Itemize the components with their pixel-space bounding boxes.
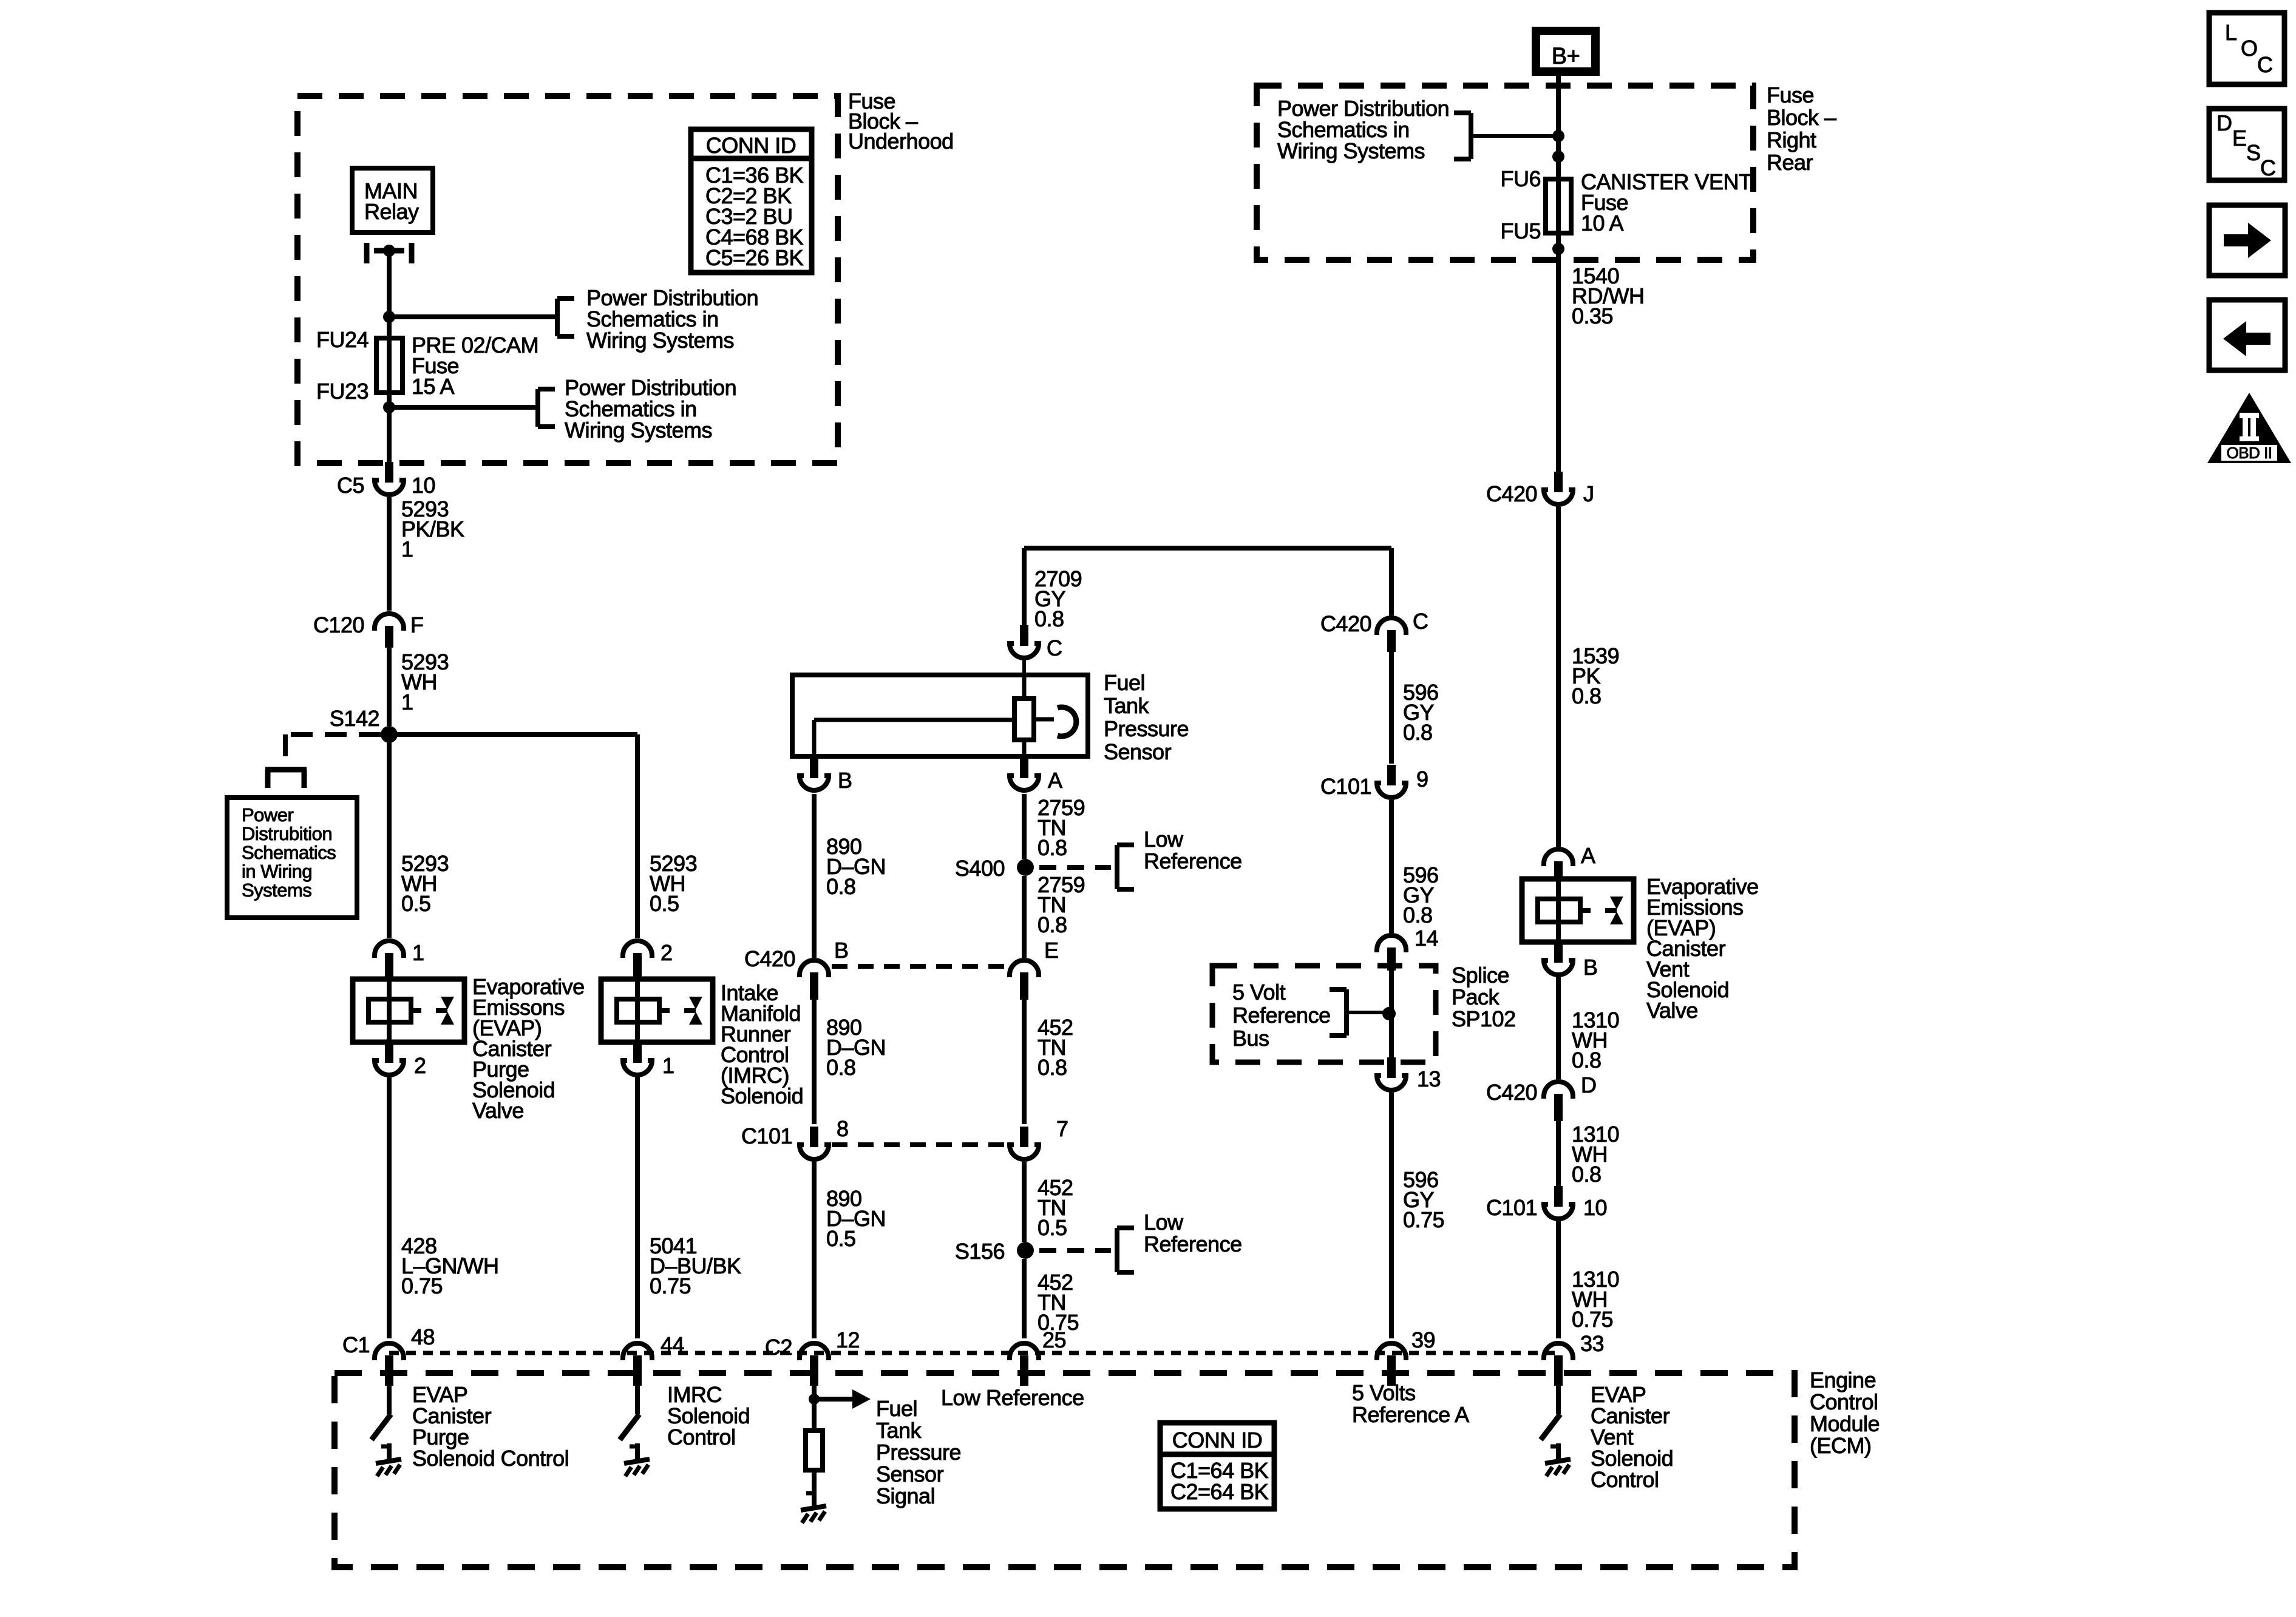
svg-text:B: B (834, 938, 849, 963)
svg-text:Control: Control (1591, 1467, 1659, 1492)
wire 2759 TN lower (1022, 876, 1027, 958)
svg-text:S142: S142 (330, 706, 379, 731)
connector C420 pin D (1544, 1082, 1573, 1121)
label wire 596 GY 0.8 lower (1403, 863, 1439, 927)
svg-text:Engine: Engine (1810, 1368, 1876, 1392)
label low reference upper (1144, 827, 1242, 873)
ECM FTPS signal ground (801, 1490, 826, 1523)
connector FTPS pin B (800, 758, 829, 790)
svg-text:J: J (1583, 481, 1594, 506)
EVAP canister purge solenoid valve (353, 979, 464, 1042)
svg-text:OBD II: OBD II (2226, 444, 2272, 462)
node junction dot FU24 branch (383, 311, 395, 323)
5 volt reference bus dashed box (1212, 966, 1436, 1062)
CONN ID table ECM (1160, 1423, 1274, 1509)
ECM driver switch EVAP vent (1541, 1378, 1571, 1476)
label C420 at C (1320, 611, 1371, 636)
icon OBD II triangle (2207, 393, 2291, 463)
svg-text:C: C (1047, 636, 1062, 660)
svg-text:C: C (1413, 609, 1428, 634)
bracket power distribution right (1454, 113, 1471, 159)
ECM driver switch EVAP purge (372, 1378, 401, 1476)
label C101 at 10 (1486, 1195, 1537, 1220)
svg-text:13: 13 (1417, 1066, 1441, 1091)
svg-text:2: 2 (661, 940, 673, 965)
svg-text:Low: Low (1144, 827, 1184, 852)
svg-text:in Wiring: in Wiring (242, 861, 312, 882)
label splice pack SP102 (1452, 963, 1516, 1031)
svg-text:0.75: 0.75 (1403, 1207, 1444, 1232)
label wire 452 TN 0.8 (1038, 1015, 1073, 1080)
svg-text:12: 12 (836, 1327, 860, 1352)
svg-text:S156: S156 (955, 1239, 1005, 1264)
label pin 13 (1417, 1066, 1441, 1091)
svg-text:8: 8 (837, 1116, 849, 1141)
label IMRC pin 2 (661, 940, 673, 965)
relay K MAIN Relay box (352, 168, 433, 232)
label pin D (1581, 1073, 1597, 1097)
label power distribution upper (586, 285, 758, 353)
svg-text:0.8: 0.8 (826, 874, 856, 899)
label pin 7 (1056, 1116, 1068, 1141)
svg-text:Splice: Splice (1452, 963, 1509, 988)
wire bracket to B+ wire (1471, 134, 1556, 138)
label FU24 (316, 327, 369, 352)
label EVAP canister purge solenoid control (412, 1382, 569, 1471)
svg-text:C101: C101 (1320, 774, 1371, 799)
label power distrubition schematics in wiring systems (242, 804, 336, 901)
label pin C (1413, 609, 1428, 634)
svg-text:Control: Control (667, 1425, 736, 1449)
label wire 890 D-GN 0.5 (826, 1186, 886, 1251)
connector IMRC pin 2 (623, 941, 652, 980)
svg-text:Sensor: Sensor (876, 1462, 944, 1486)
svg-text:Pressure: Pressure (876, 1440, 961, 1465)
wire 596 GY 0.75 (1389, 1093, 1394, 1338)
connector FTPS pin C (1010, 625, 1039, 658)
dashed wire S142 to power distrubition (285, 734, 381, 766)
connector C420 pin C (1377, 618, 1406, 652)
label pin 12 (836, 1327, 860, 1352)
wire 890 D-GN 0.5 (812, 1162, 817, 1338)
label wire 2759 TN 0.8 lower (1038, 872, 1085, 937)
svg-text:B+: B+ (1552, 44, 1580, 69)
svg-text:D: D (2216, 110, 2232, 135)
label low reference lower (1144, 1210, 1242, 1256)
svg-text:0.8: 0.8 (1034, 606, 1064, 631)
wire FU23 to C5 (387, 393, 392, 470)
svg-text:0.5: 0.5 (401, 891, 431, 916)
label power distribution lower (565, 375, 736, 442)
wire 2759 TN upper (1022, 794, 1027, 859)
svg-text:Pack: Pack (1452, 985, 1500, 1009)
connector IMRC pin 1 (623, 1040, 652, 1075)
label C120 (313, 612, 364, 637)
svg-text:S: S (2246, 140, 2261, 165)
svg-text:10: 10 (412, 473, 435, 498)
svg-text:C101: C101 (1486, 1195, 1537, 1220)
connector purge valve pin 1 (375, 941, 404, 980)
svg-text:FU6: FU6 (1500, 166, 1541, 191)
svg-text:33: 33 (1580, 1331, 1604, 1356)
IMRC solenoid valve (601, 979, 713, 1042)
label pin J (1583, 481, 1594, 506)
svg-text:Sensor: Sensor (1104, 739, 1172, 764)
label wire 5293 WH 0.5 left (401, 851, 449, 916)
node junction dot FU23 branch (383, 401, 395, 413)
svg-text:1: 1 (401, 690, 413, 714)
svg-text:0.5: 0.5 (1038, 1215, 1067, 1240)
label S156 (955, 1239, 1005, 1264)
svg-text:C420: C420 (744, 946, 795, 971)
svg-text:0.5: 0.5 (826, 1226, 856, 1251)
label pin 33 (1580, 1331, 1604, 1356)
label pin 48 (411, 1324, 435, 1349)
svg-text:B: B (838, 768, 852, 793)
svg-text:A: A (1048, 768, 1062, 793)
svg-text:0.8: 0.8 (1038, 1055, 1067, 1080)
wire branch to power distribution (lower) (389, 405, 538, 410)
FTPS internal crescent (1034, 707, 1076, 736)
label wire 2759 TN 0.8 upper (1038, 795, 1085, 860)
icon DESC box (2209, 109, 2284, 180)
label wire 1540 RD/WH 0.35 (1572, 263, 1644, 328)
svg-text:0.5: 0.5 (650, 891, 679, 916)
MAIN relay socket bracket (367, 243, 412, 263)
wire 596 GY 0.8 lower (1389, 800, 1394, 933)
label wire 890 D-GN 0.8 mid (826, 1015, 886, 1080)
label wire 596 GY 0.8 upper (1403, 680, 1439, 745)
icon left arrow box (2209, 300, 2285, 370)
svg-text:10 A: 10 A (1581, 211, 1624, 236)
wire 452 TN 0.75 (1022, 1259, 1027, 1338)
connector C101 pin 9 (1377, 765, 1406, 798)
wire 452 TN 0.8 (1022, 998, 1027, 1124)
svg-text:Valve: Valve (472, 1098, 524, 1123)
wire 890 D-GN 0.8 upper (812, 794, 817, 958)
label evaporative emissions purge valve (472, 974, 585, 1123)
connector C101 pin 7 (1010, 1127, 1039, 1159)
label fuse block right rear (1767, 83, 1836, 175)
label fuse block underhood (848, 89, 954, 154)
label vent pin B (1583, 955, 1598, 980)
svg-text:25: 25 (1042, 1327, 1066, 1352)
svg-text:Reference A: Reference A (1352, 1402, 1469, 1427)
label C2 (765, 1335, 792, 1360)
connector C120 pin F (375, 614, 404, 648)
wire branch to power distribution (upper) (389, 314, 557, 319)
connector C2 pin 12 (800, 1343, 829, 1386)
svg-text:Block –: Block – (1767, 105, 1836, 130)
bracket 5 volt reference (1330, 989, 1347, 1036)
svg-text:5 Volts: 5 Volts (1352, 1380, 1416, 1405)
svg-text:Systems: Systems (242, 880, 311, 901)
svg-text:1: 1 (401, 537, 413, 561)
EVAP canister vent solenoid valve (1522, 879, 1634, 942)
svg-text:CONN ID: CONN ID (706, 133, 796, 158)
label IMRC solenoid control (667, 1382, 750, 1449)
svg-text:F: F (410, 612, 424, 637)
wire MAIN relay to fuse FU24 (387, 251, 392, 340)
svg-text:1: 1 (412, 940, 424, 965)
ECM driver switch IMRC (620, 1378, 650, 1476)
svg-text:C2: C2 (765, 1335, 792, 1360)
fuse block right rear dashed box (1257, 86, 1753, 260)
connector vent valve pin A (1544, 849, 1573, 881)
svg-text:Distrubition: Distrubition (242, 823, 332, 844)
label EVAP canister vent solenoid control (1591, 1382, 1673, 1492)
label IMRC pin 1 (662, 1053, 674, 1078)
svg-text:Wiring Systems: Wiring Systems (565, 418, 712, 442)
label wire 5293 WH 0.5 right (650, 851, 697, 916)
label FU23 (316, 379, 369, 404)
label pin 8 (837, 1116, 849, 1141)
svg-text:48: 48 (411, 1324, 435, 1349)
svg-text:C: C (2257, 52, 2273, 77)
label wire 5041 D-BU/BK 0.75 (650, 1233, 741, 1298)
connector C420 pin E (1010, 960, 1039, 1000)
ECM FTPS signal resistor (806, 1399, 823, 1498)
svg-text:CONN ID: CONN ID (1172, 1428, 1263, 1453)
connector C2 pin 33 (1544, 1343, 1573, 1386)
label canister vent fuse 10 A (1581, 169, 1752, 236)
label wire 890 D-GN 0.8 upper (826, 834, 886, 899)
label C101 at 8 (741, 1124, 792, 1148)
wire through SP102 box (1389, 966, 1394, 1059)
label wire 1310 WH 0.8 upper (1572, 1008, 1619, 1073)
label FTPS pin B (838, 768, 852, 793)
svg-text:Bus: Bus (1232, 1026, 1269, 1051)
svg-text:Low: Low (1144, 1210, 1184, 1235)
svg-text:Reference: Reference (1232, 1003, 1331, 1028)
label FU5 (1500, 219, 1541, 243)
svg-text:A: A (1581, 843, 1595, 868)
label S400 (955, 856, 1005, 881)
svg-text:Underhood: Underhood (848, 129, 954, 154)
svg-text:0.75: 0.75 (650, 1273, 691, 1298)
svg-text:Solenoid: Solenoid (721, 1083, 803, 1108)
label purge pin 2 (414, 1053, 426, 1078)
label pin E (1044, 938, 1059, 963)
wire 452 TN 0.5 (1022, 1162, 1027, 1242)
svg-text:0.75: 0.75 (1572, 1307, 1613, 1332)
bracket power distribution lower (538, 389, 555, 427)
label pin 14 (1415, 926, 1438, 951)
svg-text:0.8: 0.8 (1038, 912, 1067, 937)
svg-text:C420: C420 (1320, 611, 1371, 636)
svg-text:C420: C420 (1486, 1080, 1537, 1105)
wire top run pin C to C420 C (1024, 548, 1391, 625)
connector C101 pin 8 (800, 1127, 829, 1159)
connector C1 pin 48 (375, 1343, 404, 1386)
svg-text:S400: S400 (955, 856, 1005, 881)
FTPS internal element (1014, 675, 1034, 756)
off-page fork symbol (265, 770, 307, 788)
connector SP102 pin 14 (1377, 935, 1406, 971)
label S142 (330, 706, 379, 731)
label wire 452 TN 0.5 (1038, 1175, 1073, 1240)
svg-text:0.8: 0.8 (1403, 903, 1433, 927)
label engine control module ECM (1810, 1368, 1880, 1458)
svg-text:14: 14 (1415, 926, 1438, 951)
svg-text:Pressure: Pressure (1104, 716, 1189, 741)
wire 1310 WH 0.8 lower (1556, 1120, 1561, 1186)
battery B+ box (1536, 31, 1595, 72)
icon LOC box (2209, 13, 2284, 84)
svg-text:Signal: Signal (876, 1483, 935, 1508)
label 5 volts reference A (1352, 1380, 1469, 1427)
bracket power distribution upper (557, 299, 574, 336)
svg-text:C1: C1 (342, 1332, 370, 1357)
connector C101 pin 10 (1544, 1186, 1573, 1219)
svg-text:C5: C5 (337, 473, 364, 498)
svg-text:Relay: Relay (364, 199, 419, 224)
engine control module dashed box (335, 1373, 1795, 1567)
svg-text:B: B (1583, 955, 1598, 980)
wire 428 L-GN/WH (387, 1077, 392, 1338)
label wire 2709 GY 0.8 (1034, 566, 1082, 631)
ECM connector face dotted line (389, 1351, 1558, 1355)
fuse FU24/FU23 PRE O2/CAM 15A (376, 338, 402, 393)
svg-text:Fuse: Fuse (1767, 83, 1814, 107)
label C420 at J (1486, 481, 1537, 506)
label wire 452 TN 0.75 (1038, 1270, 1079, 1335)
label fuel tank pressure sensor (1104, 670, 1189, 764)
label pin 39 (1411, 1327, 1435, 1352)
wire 5293 WH 1 (387, 645, 392, 726)
FTPS internal wiper line (814, 720, 1014, 756)
label power distribution right (1277, 96, 1449, 163)
wire 1539 PK 0.8 (1556, 507, 1561, 847)
fuse FU6/FU5 CANISTER VENT 10A (1546, 179, 1571, 233)
dashed link S156 to low reference (1039, 1248, 1111, 1253)
label intake manifold runner control (721, 980, 803, 1108)
svg-text:0.8: 0.8 (826, 1055, 856, 1080)
svg-text:Wiring Systems: Wiring Systems (1277, 138, 1425, 163)
svg-text:5 Volt: 5 Volt (1232, 980, 1286, 1005)
junction dot FU5 (1552, 243, 1564, 255)
svg-text:Low Reference: Low Reference (941, 1385, 1084, 1410)
wire S142 to IMRC branch (389, 734, 637, 938)
svg-text:C420: C420 (1486, 481, 1537, 506)
svg-text:0.8: 0.8 (1572, 1048, 1601, 1073)
svg-text:C: C (2260, 155, 2276, 180)
svg-text:D: D (1581, 1073, 1597, 1097)
wire B+ down (1556, 72, 1561, 473)
svg-text:Valve: Valve (1646, 998, 1698, 1023)
connector C420 pin B (800, 960, 829, 1000)
svg-text:9: 9 (1416, 767, 1428, 792)
label evaporative emissions vent valve (1646, 874, 1759, 1023)
svg-text:10: 10 (1583, 1195, 1607, 1220)
junction dot under MAIN relay (383, 245, 395, 257)
label PRE 02/CAM Fuse 15 A (412, 333, 538, 399)
svg-text:Module: Module (1810, 1411, 1880, 1436)
junction dot B+ branch (1552, 130, 1564, 142)
junction dot FU6 (1552, 151, 1564, 163)
svg-text:0.8: 0.8 (1403, 720, 1433, 745)
bracket low reference upper (1117, 845, 1134, 889)
label wire 428 L-GN/WH 0.75 (401, 1233, 499, 1298)
svg-text:0.75: 0.75 (401, 1273, 443, 1298)
svg-text:FU5: FU5 (1500, 219, 1541, 243)
label FTPS pin C (1047, 636, 1062, 660)
svg-text:Control: Control (1810, 1389, 1878, 1414)
svg-text:FU23: FU23 (316, 379, 369, 404)
svg-text:39: 39 (1411, 1327, 1435, 1352)
label FTPS pin A (1048, 768, 1062, 793)
label pin 10 (1583, 1195, 1607, 1220)
ECM FTPS signal node (809, 1375, 871, 1409)
svg-text:0.8: 0.8 (1038, 835, 1067, 860)
svg-text:Tank: Tank (876, 1418, 922, 1443)
svg-text:Solenoid Control: Solenoid Control (412, 1446, 569, 1471)
svg-text:0.8: 0.8 (1572, 683, 1601, 708)
svg-text:Reference: Reference (1144, 849, 1242, 873)
fuse block underhood dashed box (297, 96, 838, 463)
label purge pin 1 (412, 940, 424, 965)
connector SP102 pin 13 (1377, 1057, 1406, 1090)
connector FTPS pin A (1010, 758, 1039, 790)
svg-text:0.8: 0.8 (1572, 1162, 1601, 1187)
label wire 1310 WH 0.8 lower (1572, 1122, 1619, 1187)
connector vent valve pin B (1544, 941, 1573, 975)
svg-text:Reference: Reference (1144, 1232, 1242, 1256)
svg-text:Power: Power (242, 804, 294, 825)
svg-text:Wiring Systems: Wiring Systems (586, 328, 734, 353)
label wire 5293 PK/BK 1 (401, 497, 464, 561)
label FU6 (1500, 166, 1541, 191)
svg-text:2: 2 (414, 1053, 426, 1078)
label vent pin A (1581, 843, 1595, 868)
svg-text:O: O (2241, 36, 2258, 61)
wire 5041 D-BU/BK (635, 1077, 640, 1338)
connector C5 pin 10 (375, 462, 404, 495)
label C5 (337, 473, 364, 498)
dashed line C420 B to E (832, 964, 1008, 969)
label fuel tank pressure sensor signal (876, 1396, 961, 1508)
label wire 1539 PK 0.8 (1572, 643, 1619, 708)
label pin 44 (661, 1332, 684, 1357)
label C420 at D (1486, 1080, 1537, 1105)
svg-text:1: 1 (662, 1053, 674, 1078)
label C420 at B (744, 946, 795, 971)
label 5 volt reference bus (1232, 980, 1331, 1051)
fuel tank pressure sensor box (792, 675, 1088, 756)
icon right arrow box (2209, 205, 2285, 276)
wire into sensor (1022, 660, 1026, 675)
label C1 (342, 1332, 370, 1357)
label low reference ECM (941, 1385, 1084, 1410)
splice S400 (1017, 859, 1034, 876)
wire 1310 WH 0.75 (1556, 1221, 1561, 1338)
svg-text:(ECM): (ECM) (1810, 1433, 1871, 1458)
svg-text:C120: C120 (313, 612, 364, 637)
svg-text:C5=26 BK: C5=26 BK (705, 245, 804, 270)
svg-text:Schematics: Schematics (242, 842, 336, 863)
wire 596 GY 0.8 upper (1389, 648, 1394, 764)
label pin 9 (1416, 767, 1428, 792)
svg-text:Right: Right (1767, 127, 1816, 152)
wire 1310 WH 0.8 upper (1556, 977, 1561, 1079)
label wire 5293 WH 1 (401, 649, 449, 714)
label C101 at 9 (1320, 774, 1371, 799)
svg-text:C2=64 BK: C2=64 BK (1170, 1479, 1269, 1504)
label wire 1310 WH 0.75 (1572, 1267, 1619, 1332)
label pin B (834, 938, 849, 963)
bracket low reference lower (1117, 1228, 1134, 1272)
splice pack junction dot (1382, 1007, 1396, 1020)
